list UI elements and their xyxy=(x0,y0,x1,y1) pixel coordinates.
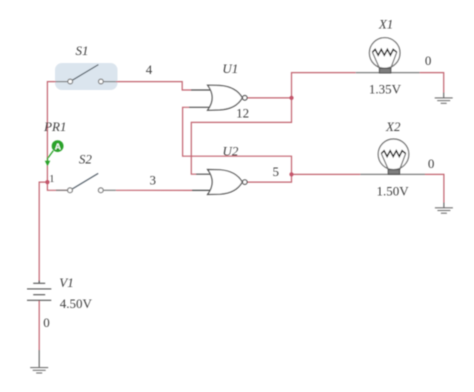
svg-text:V1: V1 xyxy=(59,275,73,290)
svg-text:4.50V: 4.50V xyxy=(60,296,93,311)
svg-text:0: 0 xyxy=(425,53,432,68)
svg-text:1: 1 xyxy=(49,174,54,185)
wire: S1 left lead down to node 1 xyxy=(56,81,68,83)
junction node 1 xyxy=(45,180,49,184)
svg-text:U2: U2 xyxy=(223,144,239,159)
svg-text:0: 0 xyxy=(43,315,50,330)
wire: U1 output node 12 to X1 xyxy=(247,73,356,98)
svg-text:A: A xyxy=(55,141,61,151)
ground (V1) xyxy=(30,368,48,373)
wire: node 12 cross-couple to U2 input A xyxy=(191,98,291,174)
svg-text:S2: S2 xyxy=(79,152,93,167)
svg-text:12: 12 xyxy=(236,106,249,121)
NOR gate U2 xyxy=(192,170,247,195)
svg-text:X1: X1 xyxy=(378,17,393,32)
svg-text:S1: S1 xyxy=(76,43,89,58)
svg-text:U1: U1 xyxy=(222,61,238,76)
lamp X2 xyxy=(378,139,409,174)
svg-text:X2: X2 xyxy=(385,119,401,134)
svg-text:5: 5 xyxy=(273,164,280,179)
switch S2 xyxy=(68,173,104,192)
wire: S2 right to U2 input B (node 3) xyxy=(104,189,116,191)
svg-text:1.50V: 1.50V xyxy=(377,183,410,198)
wire: node 5 to X2 xyxy=(292,173,361,175)
lamp X1 xyxy=(369,38,400,73)
wire: node 1 to battery V1 xyxy=(39,182,47,280)
switch S1 highlight xyxy=(55,63,118,90)
svg-text:PR1: PR1 xyxy=(43,119,66,134)
NOR gate U1 xyxy=(189,85,247,110)
switch S1 xyxy=(68,65,104,84)
probe PR1 xyxy=(45,140,64,166)
ground (X2) xyxy=(435,208,453,213)
wire: S1 right to U1 input A (node 4) xyxy=(104,81,116,83)
battery V1 xyxy=(27,283,51,300)
wire: battery V1 bottom to ground xyxy=(38,300,40,350)
wire: S2 left gray pin xyxy=(56,189,68,191)
svg-text:1.35V: 1.35V xyxy=(369,81,402,96)
ground (X1) xyxy=(435,98,453,103)
svg-text:4: 4 xyxy=(146,62,153,77)
svg-text:0: 0 xyxy=(428,156,435,171)
junction node 5 xyxy=(289,172,293,176)
wire: U2 output node 5 cross-couple to U1 input B xyxy=(183,107,292,182)
junction node 12 xyxy=(289,96,293,100)
svg-text:3: 3 xyxy=(150,173,157,188)
